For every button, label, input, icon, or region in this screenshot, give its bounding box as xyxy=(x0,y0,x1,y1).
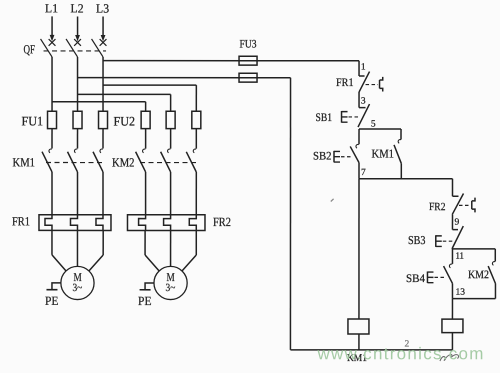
svg-text:SB3: SB3 xyxy=(408,233,426,247)
svg-text:PE: PE xyxy=(138,294,152,308)
svg-text:QF: QF xyxy=(24,42,36,56)
svg-text:FR2: FR2 xyxy=(429,201,446,213)
svg-text:13: 13 xyxy=(455,288,465,298)
svg-text:1: 1 xyxy=(361,63,366,73)
svg-text:L2: L2 xyxy=(71,1,84,15)
svg-text:FR2: FR2 xyxy=(213,215,231,229)
svg-text:L3: L3 xyxy=(96,1,109,15)
svg-text:PE: PE xyxy=(45,294,59,308)
svg-text:KM1: KM1 xyxy=(13,155,36,169)
svg-text:3~: 3~ xyxy=(166,282,176,294)
svg-text:SB1: SB1 xyxy=(316,112,333,124)
svg-text:FR1: FR1 xyxy=(336,77,354,89)
svg-text:FU3: FU3 xyxy=(240,38,257,50)
svg-text:3: 3 xyxy=(361,97,366,107)
svg-text:KM2: KM2 xyxy=(112,155,135,169)
svg-text:3~: 3~ xyxy=(72,282,82,294)
svg-text:SB4: SB4 xyxy=(406,273,425,285)
svg-text:KM2: KM2 xyxy=(468,269,489,281)
svg-text:FU1: FU1 xyxy=(22,113,44,128)
svg-text:FU2: FU2 xyxy=(114,113,136,128)
svg-text:SB2: SB2 xyxy=(313,151,332,163)
svg-text:L1: L1 xyxy=(45,1,58,15)
svg-text:7: 7 xyxy=(361,168,366,178)
svg-text:9: 9 xyxy=(454,218,459,228)
svg-text:FR1: FR1 xyxy=(12,214,30,228)
svg-text:www.cntronics.com: www.cntronics.com xyxy=(316,344,483,363)
svg-text:5: 5 xyxy=(371,120,376,130)
svg-text:KM1: KM1 xyxy=(372,147,395,161)
svg-text:11: 11 xyxy=(455,252,464,262)
